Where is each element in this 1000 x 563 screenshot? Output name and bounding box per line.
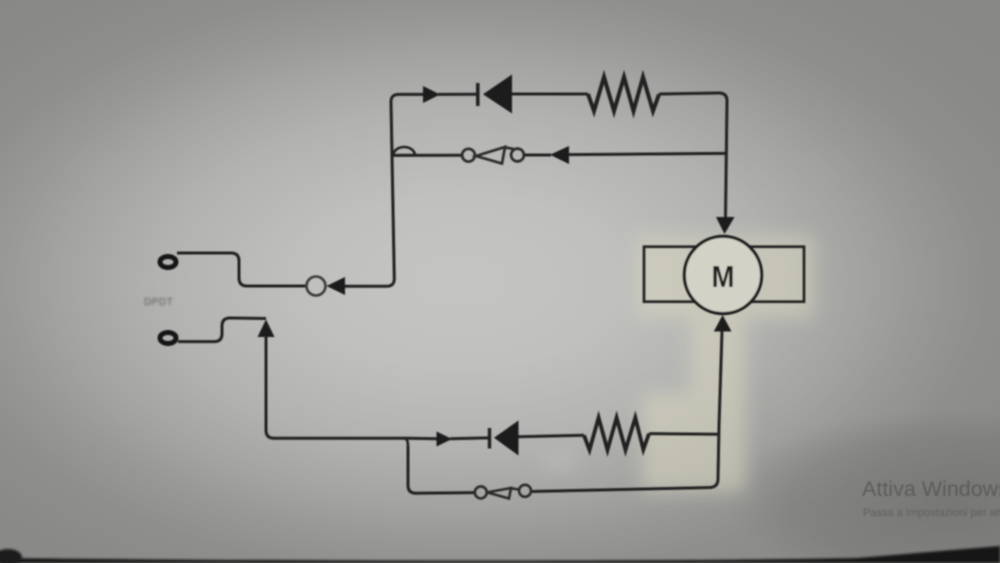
motor M1 rectangle	[644, 247, 804, 302]
wire diode to resistor R2	[519, 435, 585, 436]
diode D1	[476, 83, 480, 106]
wire resistor to motor riser	[649, 432, 718, 436]
wire J2 to up arrow corner	[178, 318, 266, 342]
node circle	[307, 277, 326, 296]
wire arrow to motor riser	[568, 153, 726, 154]
arrowhead left into node	[327, 277, 346, 295]
terminal J1	[160, 257, 176, 268]
svg-text:DPDT: DPDT	[144, 297, 173, 308]
svg-text:M: M	[712, 259, 735, 294]
motor M1 circle	[684, 236, 761, 313]
diode D2	[488, 428, 491, 449]
arrowhead up into motor bottom	[714, 315, 732, 332]
svg-text:Passa a Impostazioni per attiv: Passa a Impostazioni per attivare Window…	[863, 507, 1000, 519]
arrowhead right on top branch	[423, 86, 440, 103]
wire bottom switch left to corner up	[408, 446, 475, 493]
resistor R1	[588, 77, 659, 111]
wire hop arc	[393, 147, 415, 155]
arrowhead up at corner	[258, 320, 275, 338]
wire motor bottom riser	[710, 331, 722, 488]
wire switch to arrow	[524, 154, 551, 157]
wire bottom switch row	[531, 488, 712, 492]
wire arrow to diode D2	[450, 436, 488, 440]
wire switch row left	[392, 154, 461, 157]
svg-text:Attiva Windows: Attiva Windows	[862, 477, 1000, 501]
arrowhead down into motor	[716, 217, 735, 234]
switch S1	[462, 147, 524, 164]
resistor R2	[584, 418, 649, 450]
wire down from arrow to bottom branch	[266, 336, 274, 438]
wire arrow to diode	[438, 93, 477, 96]
wire resistor to right corner down to motor arrow	[659, 93, 727, 217]
wire diode to resistor	[512, 93, 588, 96]
wire J1 to corner	[177, 253, 306, 286]
arrowhead left on switch row	[550, 146, 569, 164]
wire bottom main branch	[274, 437, 437, 441]
terminal J2	[160, 333, 176, 344]
arrowhead right on bottom branch	[437, 432, 453, 447]
switch S2	[475, 485, 531, 499]
wire node to left riser	[345, 94, 424, 286]
junction corner	[404, 438, 408, 446]
